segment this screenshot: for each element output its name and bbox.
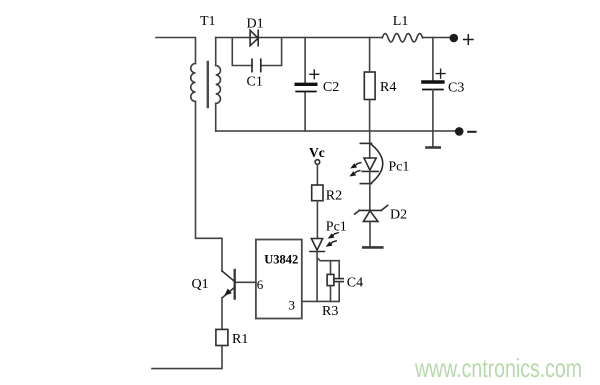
wire: Vc to R2	[316, 165, 318, 186]
svg-text:R2: R2	[326, 189, 342, 204]
resistor R1	[216, 329, 228, 345]
svg-text:C1: C1	[247, 75, 263, 90]
output + terminal dot	[450, 34, 459, 43]
photodiode Pc1 (receiver side)	[310, 239, 325, 252]
transformer T1 primary winding	[191, 64, 196, 102]
wire: R3 branch bottom lead	[330, 286, 332, 302]
svg-text:Pc1: Pc1	[388, 160, 409, 175]
svg-text:Pc1: Pc1	[326, 220, 347, 235]
wire: emitter down to R1	[221, 298, 223, 330]
wire: top-left input to transformer primary top	[156, 38, 196, 64]
wire: top rail from L1 to + terminal	[423, 37, 454, 39]
wire: C3 bottom lead through bottom rail to ground	[432, 90, 434, 147]
plus sign of C2	[310, 70, 319, 79]
svg-text:C4: C4	[347, 276, 363, 291]
wire: LED to zener D2	[369, 184, 371, 210]
wire: R2 to photodiode Pc1	[316, 201, 318, 239]
bottom rail (0V)	[216, 130, 455, 132]
resistor R3	[327, 274, 334, 285]
transformer T1 secondary winding	[216, 66, 221, 104]
wire: secondary bottom down to bottom rail	[215, 104, 217, 132]
svg-text:D1: D1	[247, 17, 264, 32]
Vc terminal circle	[315, 160, 320, 165]
svg-text:T1: T1	[200, 14, 216, 29]
svg-text:3: 3	[289, 298, 296, 313]
svg-text:U3842: U3842	[264, 252, 298, 266]
zener diode D2	[355, 205, 388, 221]
inductor L1	[382, 34, 422, 42]
ground under D2	[363, 246, 382, 249]
svg-text:R4: R4	[380, 80, 396, 95]
svg-text:C2: C2	[323, 80, 339, 95]
wire: photodiode cathode down to pin3 node	[316, 252, 318, 302]
wire: pin 3 node horizontal	[302, 300, 339, 302]
capacitor C4	[335, 279, 343, 282]
optocoupler Pc1 LED (emitting diode)	[362, 158, 378, 171]
wire: from bottom rail down to optocoupler diode	[369, 131, 371, 158]
light arrows of Pc1 LED (emitting, pointing away down-left)	[349, 163, 361, 177]
resistor R2	[312, 185, 323, 201]
wire: C4 branch top lead	[338, 261, 340, 279]
svg-text:Q1: Q1	[192, 277, 209, 292]
svg-text:6: 6	[257, 277, 264, 292]
light arrows into photodiode Pc1 (pointing down-left toward diode)	[326, 233, 339, 247]
transistor Q1	[222, 270, 235, 299]
wire: C2 top and bottom leads	[304, 38, 306, 132]
svg-text:C3: C3	[448, 81, 464, 96]
svg-text:Vc: Vc	[309, 145, 325, 160]
wire: secondary top up to output rail	[215, 38, 217, 66]
wire: C3 top lead	[432, 38, 434, 81]
wire: C1 bypass loop	[232, 38, 281, 66]
wire: C4 branch bottom lead	[338, 282, 340, 302]
output - terminal dot	[455, 127, 464, 136]
wire: base of Q1 to pin 6	[235, 281, 256, 283]
svg-text:R1: R1	[232, 332, 248, 347]
svg-text:D2: D2	[390, 208, 407, 223]
plus sign of output	[464, 35, 473, 44]
wire: primary bottom down to Q1 collector	[196, 102, 223, 272]
plus sign of C3	[436, 69, 445, 78]
IC U3842 box	[256, 240, 302, 319]
svg-text:www.cntronics.com: www.cntronics.com	[414, 353, 582, 383]
transformer T1 core	[207, 62, 209, 107]
emitter arrow of Q1	[224, 289, 232, 296]
capacitor C2 (electrolytic)	[296, 84, 316, 91]
wire: D2 anode to ground	[369, 221, 371, 246]
wire: R4 leads	[369, 38, 371, 132]
wire: R1 to bottom-left lead	[152, 346, 222, 369]
minus sign of output	[468, 131, 475, 133]
optocoupler Pc1 LED bottom tick	[360, 183, 371, 185]
capacitor C3 (electrolytic)	[423, 82, 443, 90]
resistor R4	[364, 72, 375, 100]
svg-text:L1: L1	[393, 14, 409, 29]
wire: LED cathode to bottom tick	[369, 171, 371, 183]
svg-text:R3: R3	[322, 304, 338, 319]
wire: R3 branch top lead	[330, 261, 332, 275]
capacitor C1	[252, 59, 261, 71]
wire: bracket to R3/C4 parallel pair	[317, 258, 339, 261]
wire: top rail from secondary to L1	[216, 37, 383, 39]
optocoupler Pc1 LED top tick	[360, 142, 371, 144]
diode D1	[250, 30, 258, 45]
ground under C3	[427, 146, 440, 149]
optocoupler Pc1 envelope arc	[372, 145, 383, 183]
